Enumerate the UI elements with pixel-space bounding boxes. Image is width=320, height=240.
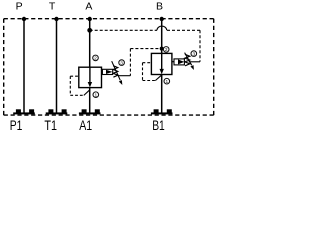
svg-text:T1: T1 <box>44 117 57 133</box>
svg-text:3: 3 <box>120 60 123 66</box>
svg-text:3: 3 <box>192 51 195 57</box>
svg-text:2: 2 <box>165 47 168 53</box>
svg-text:P: P <box>16 1 23 13</box>
svg-text:P1: P1 <box>10 117 23 133</box>
svg-text:A: A <box>85 1 92 13</box>
svg-text:2: 2 <box>94 56 97 62</box>
svg-text:B1: B1 <box>152 117 165 133</box>
svg-text:1: 1 <box>165 79 168 85</box>
svg-text:A1: A1 <box>79 117 92 133</box>
svg-text:B: B <box>156 1 163 13</box>
svg-text:T: T <box>49 1 56 13</box>
svg-text:1: 1 <box>94 92 97 98</box>
